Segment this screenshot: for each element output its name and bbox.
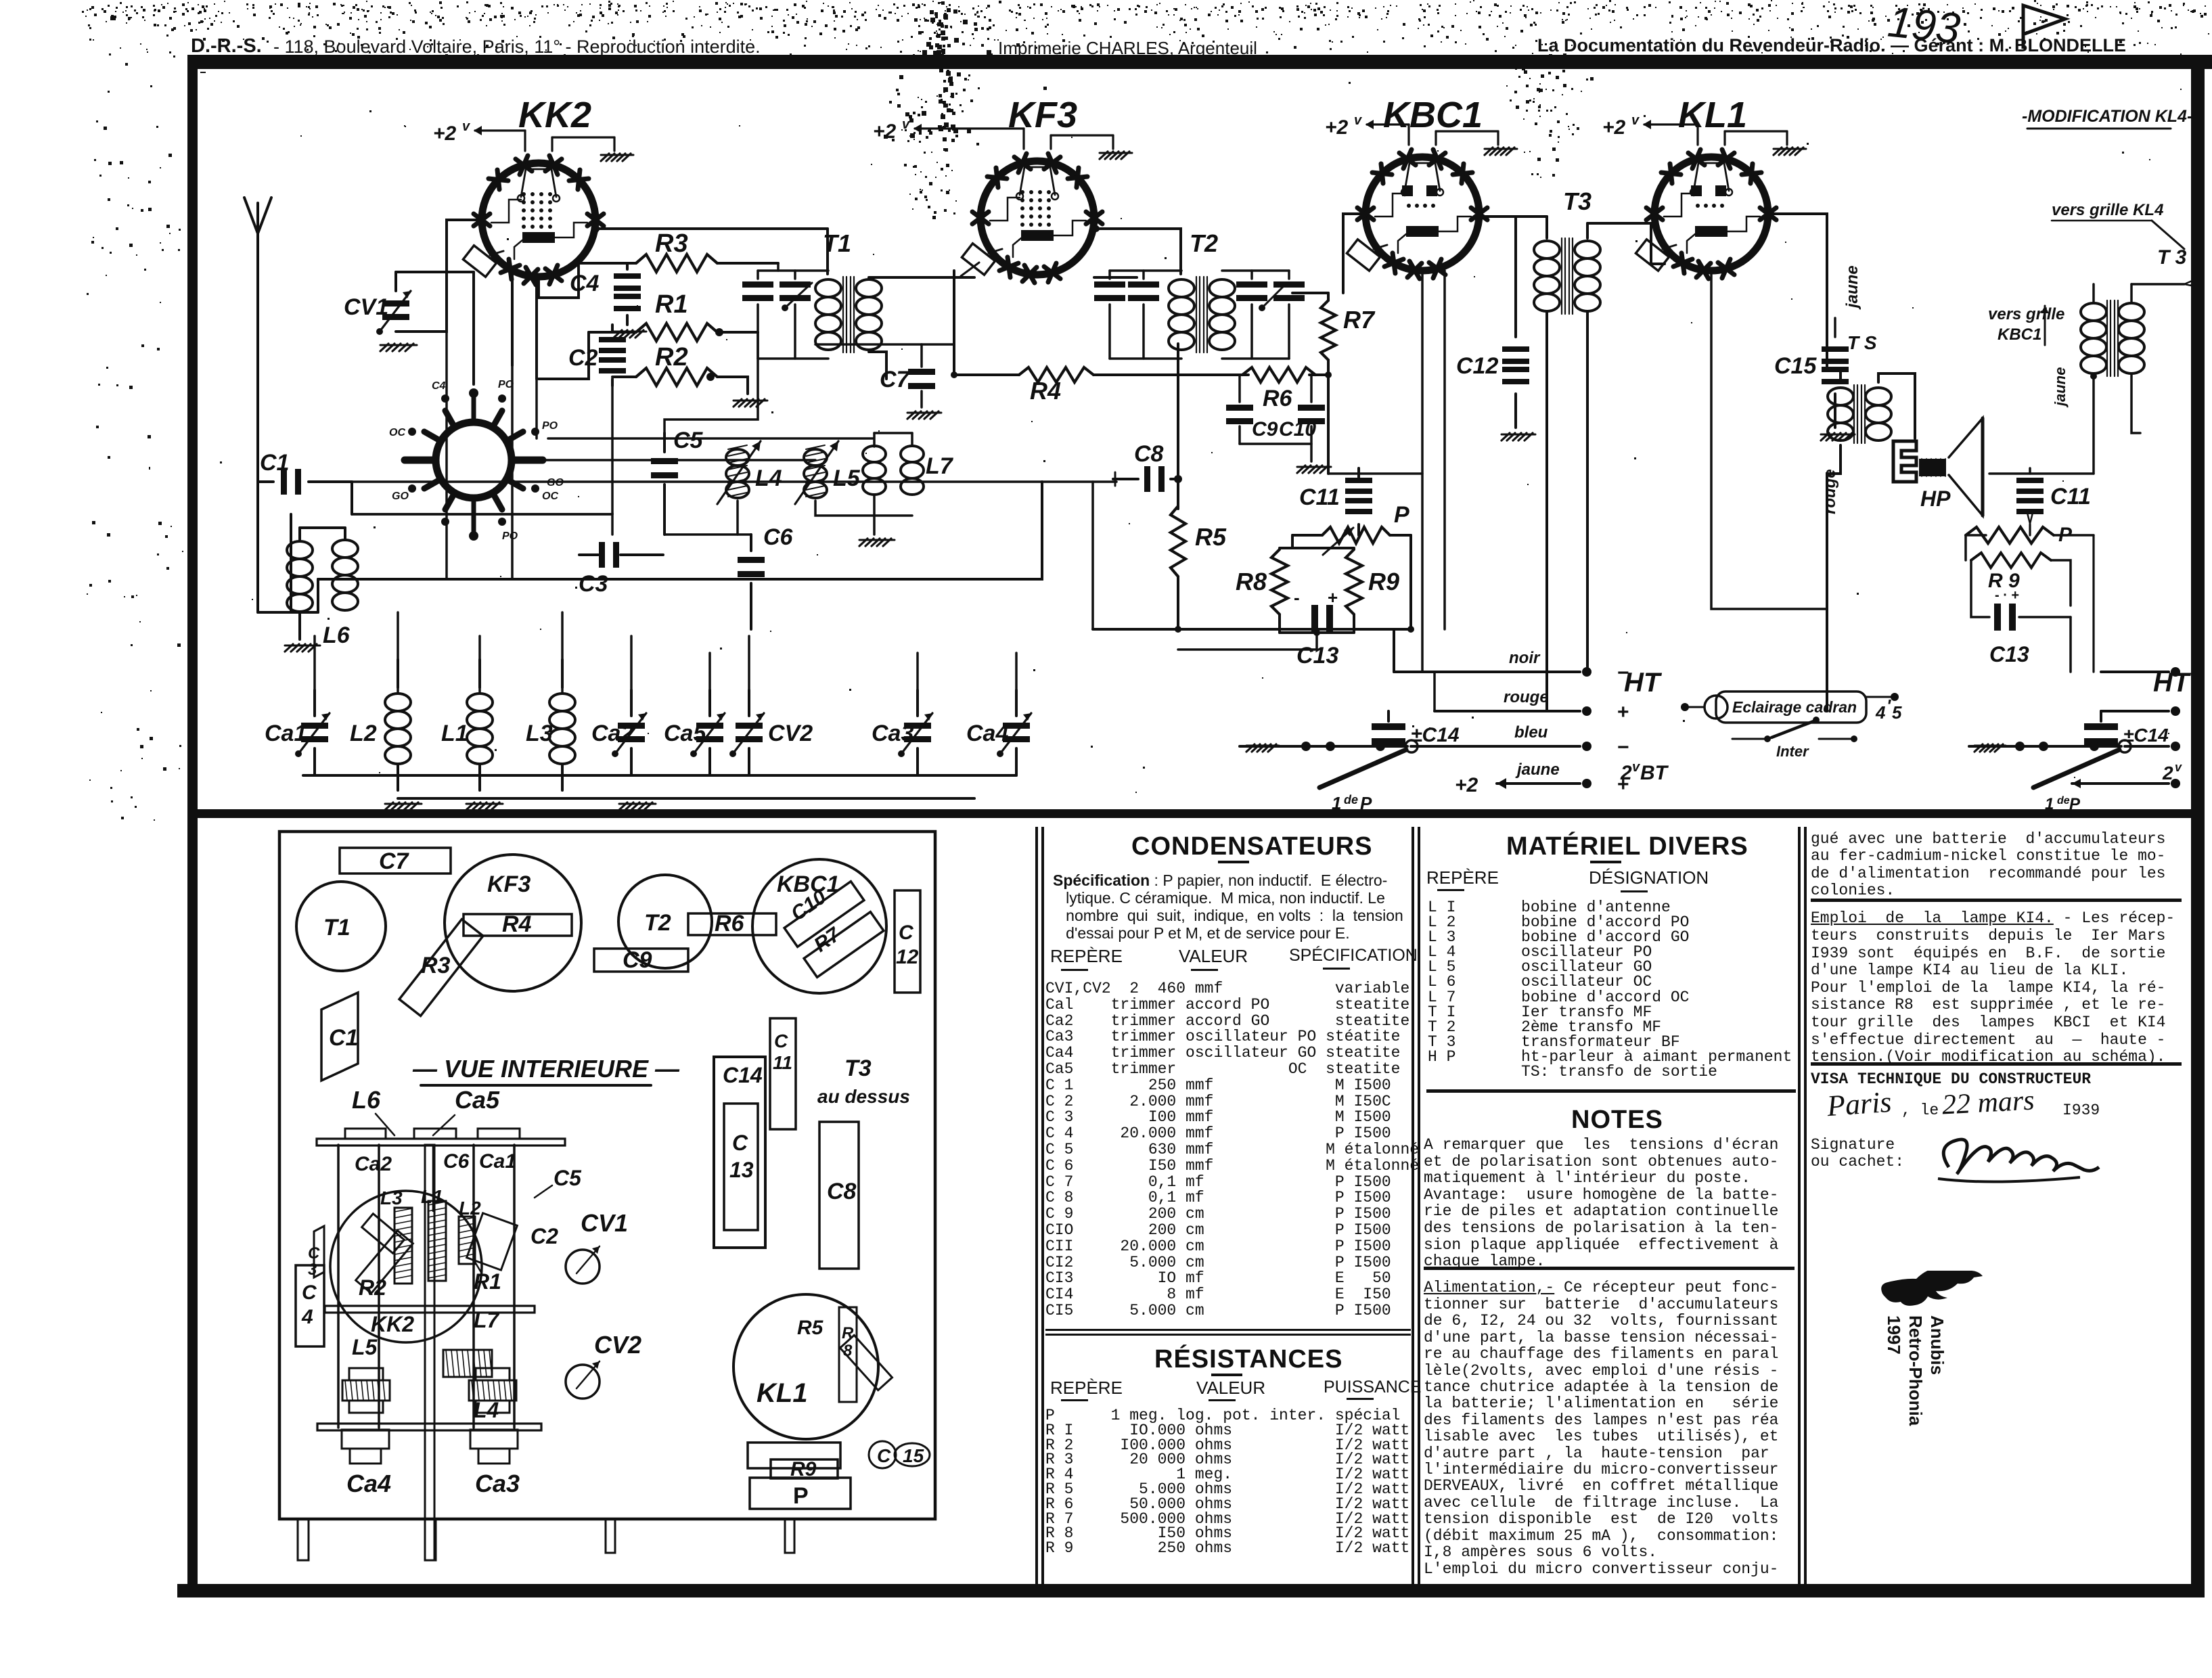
svg-text:R5: R5 <box>1195 523 1227 551</box>
svg-text:C4: C4 <box>570 271 600 296</box>
svg-text:L4: L4 <box>474 1398 499 1422</box>
svg-text:Ca1: Ca1 <box>479 1150 516 1173</box>
svg-text:T2: T2 <box>644 910 671 936</box>
svg-text:3: 3 <box>308 1261 317 1279</box>
svg-text:L5: L5 <box>352 1335 378 1359</box>
svg-text:C14: C14 <box>723 1063 763 1087</box>
svg-text:+2: +2 <box>1455 774 1479 796</box>
svg-text:T 3: T 3 <box>2157 246 2187 269</box>
svg-text:Ca4: Ca4 <box>346 1470 391 1497</box>
svg-text:au dessus: au dessus <box>817 1086 910 1107</box>
svg-text:+: + <box>1328 587 1338 608</box>
svg-text:-: - <box>1294 587 1300 608</box>
svg-text:HP: HP <box>1920 486 1951 511</box>
svg-text:T3: T3 <box>844 1056 872 1081</box>
svg-text:L1: L1 <box>441 721 468 746</box>
svg-text:13: 13 <box>729 1158 754 1182</box>
svg-text:2: 2 <box>1620 762 1632 784</box>
svg-text:±C14: ±C14 <box>1411 724 1460 746</box>
svg-text:C5: C5 <box>554 1166 582 1190</box>
svg-text:CV2: CV2 <box>594 1331 641 1359</box>
svg-text:R2: R2 <box>359 1275 386 1300</box>
svg-text:C8: C8 <box>827 1179 857 1204</box>
svg-text:C13: C13 <box>1989 642 2029 666</box>
svg-text:T S: T S <box>1847 332 1877 353</box>
svg-text:PO: PO <box>542 420 558 432</box>
svg-text:C5: C5 <box>673 428 704 453</box>
svg-text:R9: R9 <box>1368 568 1399 595</box>
svg-text:2: 2 <box>2162 763 2173 784</box>
svg-text:bleu: bleu <box>1514 723 1548 742</box>
svg-text:R3: R3 <box>421 953 451 978</box>
svg-text:GO: GO <box>392 491 409 502</box>
svg-text:rouge: rouge <box>1821 469 1839 514</box>
svg-text:de: de <box>1344 793 1358 807</box>
svg-text:': ' <box>1887 696 1891 716</box>
svg-text:4: 4 <box>1875 702 1886 723</box>
svg-text:C: C <box>732 1131 748 1155</box>
svg-text:C2: C2 <box>531 1224 558 1248</box>
svg-text:L6: L6 <box>323 622 351 648</box>
svg-text:R6: R6 <box>1263 386 1293 411</box>
svg-text:R1: R1 <box>474 1269 501 1294</box>
svg-text:KL1: KL1 <box>757 1378 808 1408</box>
svg-text:L4: L4 <box>755 466 782 491</box>
svg-text:CV1: CV1 <box>581 1209 628 1237</box>
svg-text:15: 15 <box>903 1445 924 1466</box>
svg-text:C8: C8 <box>1134 441 1164 467</box>
svg-text:L2: L2 <box>350 721 377 746</box>
svg-text:+2: +2 <box>1325 116 1349 139</box>
svg-text:T3: T3 <box>1563 187 1592 215</box>
svg-text:v: v <box>1631 113 1640 128</box>
svg-text:C: C <box>899 922 914 944</box>
svg-text:C3: C3 <box>579 571 608 597</box>
svg-text:jaune: jaune <box>1843 265 1861 310</box>
svg-text:C: C <box>877 1445 891 1466</box>
svg-text:KK2: KK2 <box>371 1312 414 1336</box>
svg-text:L7: L7 <box>926 453 954 479</box>
svg-text:−: − <box>1617 736 1629 758</box>
svg-text:P: P <box>1394 502 1409 528</box>
svg-text:R3: R3 <box>655 229 688 258</box>
svg-text:BT: BT <box>1640 762 1669 784</box>
svg-text:C11: C11 <box>1299 484 1340 510</box>
svg-text:noir: noir <box>1509 649 1541 667</box>
svg-text:C: C <box>302 1282 317 1304</box>
svg-text:Eclairage cadran: Eclairage cadran <box>1732 698 1857 716</box>
svg-text:jaune: jaune <box>1515 761 1560 779</box>
svg-text:Ca5: Ca5 <box>455 1086 500 1114</box>
svg-text:R6: R6 <box>715 911 745 936</box>
svg-text:Ca1: Ca1 <box>265 721 307 746</box>
svg-text:OC: OC <box>542 491 558 502</box>
svg-text:HT: HT <box>2153 668 2192 698</box>
svg-text:Inter: Inter <box>1776 743 1809 760</box>
svg-text:+2: +2 <box>433 122 457 145</box>
svg-text:Ca3: Ca3 <box>475 1470 520 1497</box>
svg-text:P: P <box>793 1483 809 1509</box>
svg-text:KBC1: KBC1 <box>1997 325 2041 344</box>
svg-text:C: C <box>308 1244 320 1263</box>
svg-text:L3: L3 <box>526 721 553 746</box>
svg-text:11: 11 <box>773 1052 792 1073</box>
svg-text:C7: C7 <box>880 367 911 392</box>
svg-text:12: 12 <box>896 946 919 968</box>
svg-text:C9: C9 <box>1252 418 1278 440</box>
svg-text:C2: C2 <box>568 345 598 371</box>
svg-text:C6: C6 <box>443 1150 470 1173</box>
svg-text:v: v <box>1354 113 1363 128</box>
svg-text:CV2: CV2 <box>768 721 813 746</box>
svg-text:T1: T1 <box>323 915 351 940</box>
svg-text:vers grille KL4: vers grille KL4 <box>2052 201 2163 219</box>
svg-text:vers grille: vers grille <box>1988 305 2064 323</box>
svg-text:-MODIFICATION KL4-: -MODIFICATION KL4- <box>2022 107 2192 126</box>
svg-text:CV1: CV1 <box>344 294 388 320</box>
svg-text:C9: C9 <box>623 947 652 973</box>
svg-text:HT: HT <box>1624 668 1663 698</box>
svg-text:v: v <box>462 119 471 134</box>
svg-text:rouge: rouge <box>1504 688 1549 706</box>
svg-text:C11: C11 <box>2050 484 2091 509</box>
svg-text:R8: R8 <box>1236 568 1267 595</box>
svg-text:de: de <box>2057 795 2070 807</box>
svg-text:4: 4 <box>301 1306 313 1328</box>
svg-text:C15: C15 <box>1774 353 1817 379</box>
svg-text:L5: L5 <box>833 466 861 491</box>
svg-text:R5: R5 <box>797 1317 824 1339</box>
svg-text:OC: OC <box>389 427 405 438</box>
svg-text:C: C <box>774 1030 788 1051</box>
svg-text:— VUE INTERIEURE —: — VUE INTERIEURE — <box>412 1055 680 1083</box>
svg-text:R4: R4 <box>502 911 532 937</box>
svg-text:T1: T1 <box>823 229 851 257</box>
svg-text:+2: +2 <box>1602 116 1626 139</box>
svg-text:L6: L6 <box>352 1086 381 1114</box>
svg-text:PO: PO <box>502 530 518 542</box>
svg-text:L7: L7 <box>474 1308 501 1332</box>
svg-text:C4: C4 <box>432 380 446 392</box>
svg-text:v: v <box>2175 761 2182 774</box>
svg-text:- · +: - · + <box>1995 588 2019 603</box>
svg-text:KL1: KL1 <box>1678 95 1747 135</box>
svg-text:Ca4: Ca4 <box>966 721 1008 746</box>
svg-text:C6: C6 <box>763 524 794 550</box>
svg-text:C12: C12 <box>1456 353 1498 379</box>
svg-text:KBC1: KBC1 <box>1383 95 1483 135</box>
svg-text:R7: R7 <box>1343 306 1376 334</box>
svg-text:R1: R1 <box>655 290 688 319</box>
svg-text:5: 5 <box>1892 702 1902 723</box>
svg-text:L3: L3 <box>380 1187 403 1208</box>
svg-text:C7: C7 <box>379 848 410 874</box>
svg-text:R2: R2 <box>655 343 688 371</box>
svg-text:T2: T2 <box>1190 229 1218 257</box>
svg-text:L2: L2 <box>459 1198 481 1219</box>
svg-text:Ca2: Ca2 <box>355 1153 392 1175</box>
svg-text:KF3: KF3 <box>487 871 531 897</box>
svg-text:KK2: KK2 <box>518 95 591 135</box>
svg-text:+: + <box>1617 701 1629 723</box>
svg-text:C1: C1 <box>329 1025 358 1051</box>
svg-text:jaune: jaune <box>2052 367 2069 408</box>
